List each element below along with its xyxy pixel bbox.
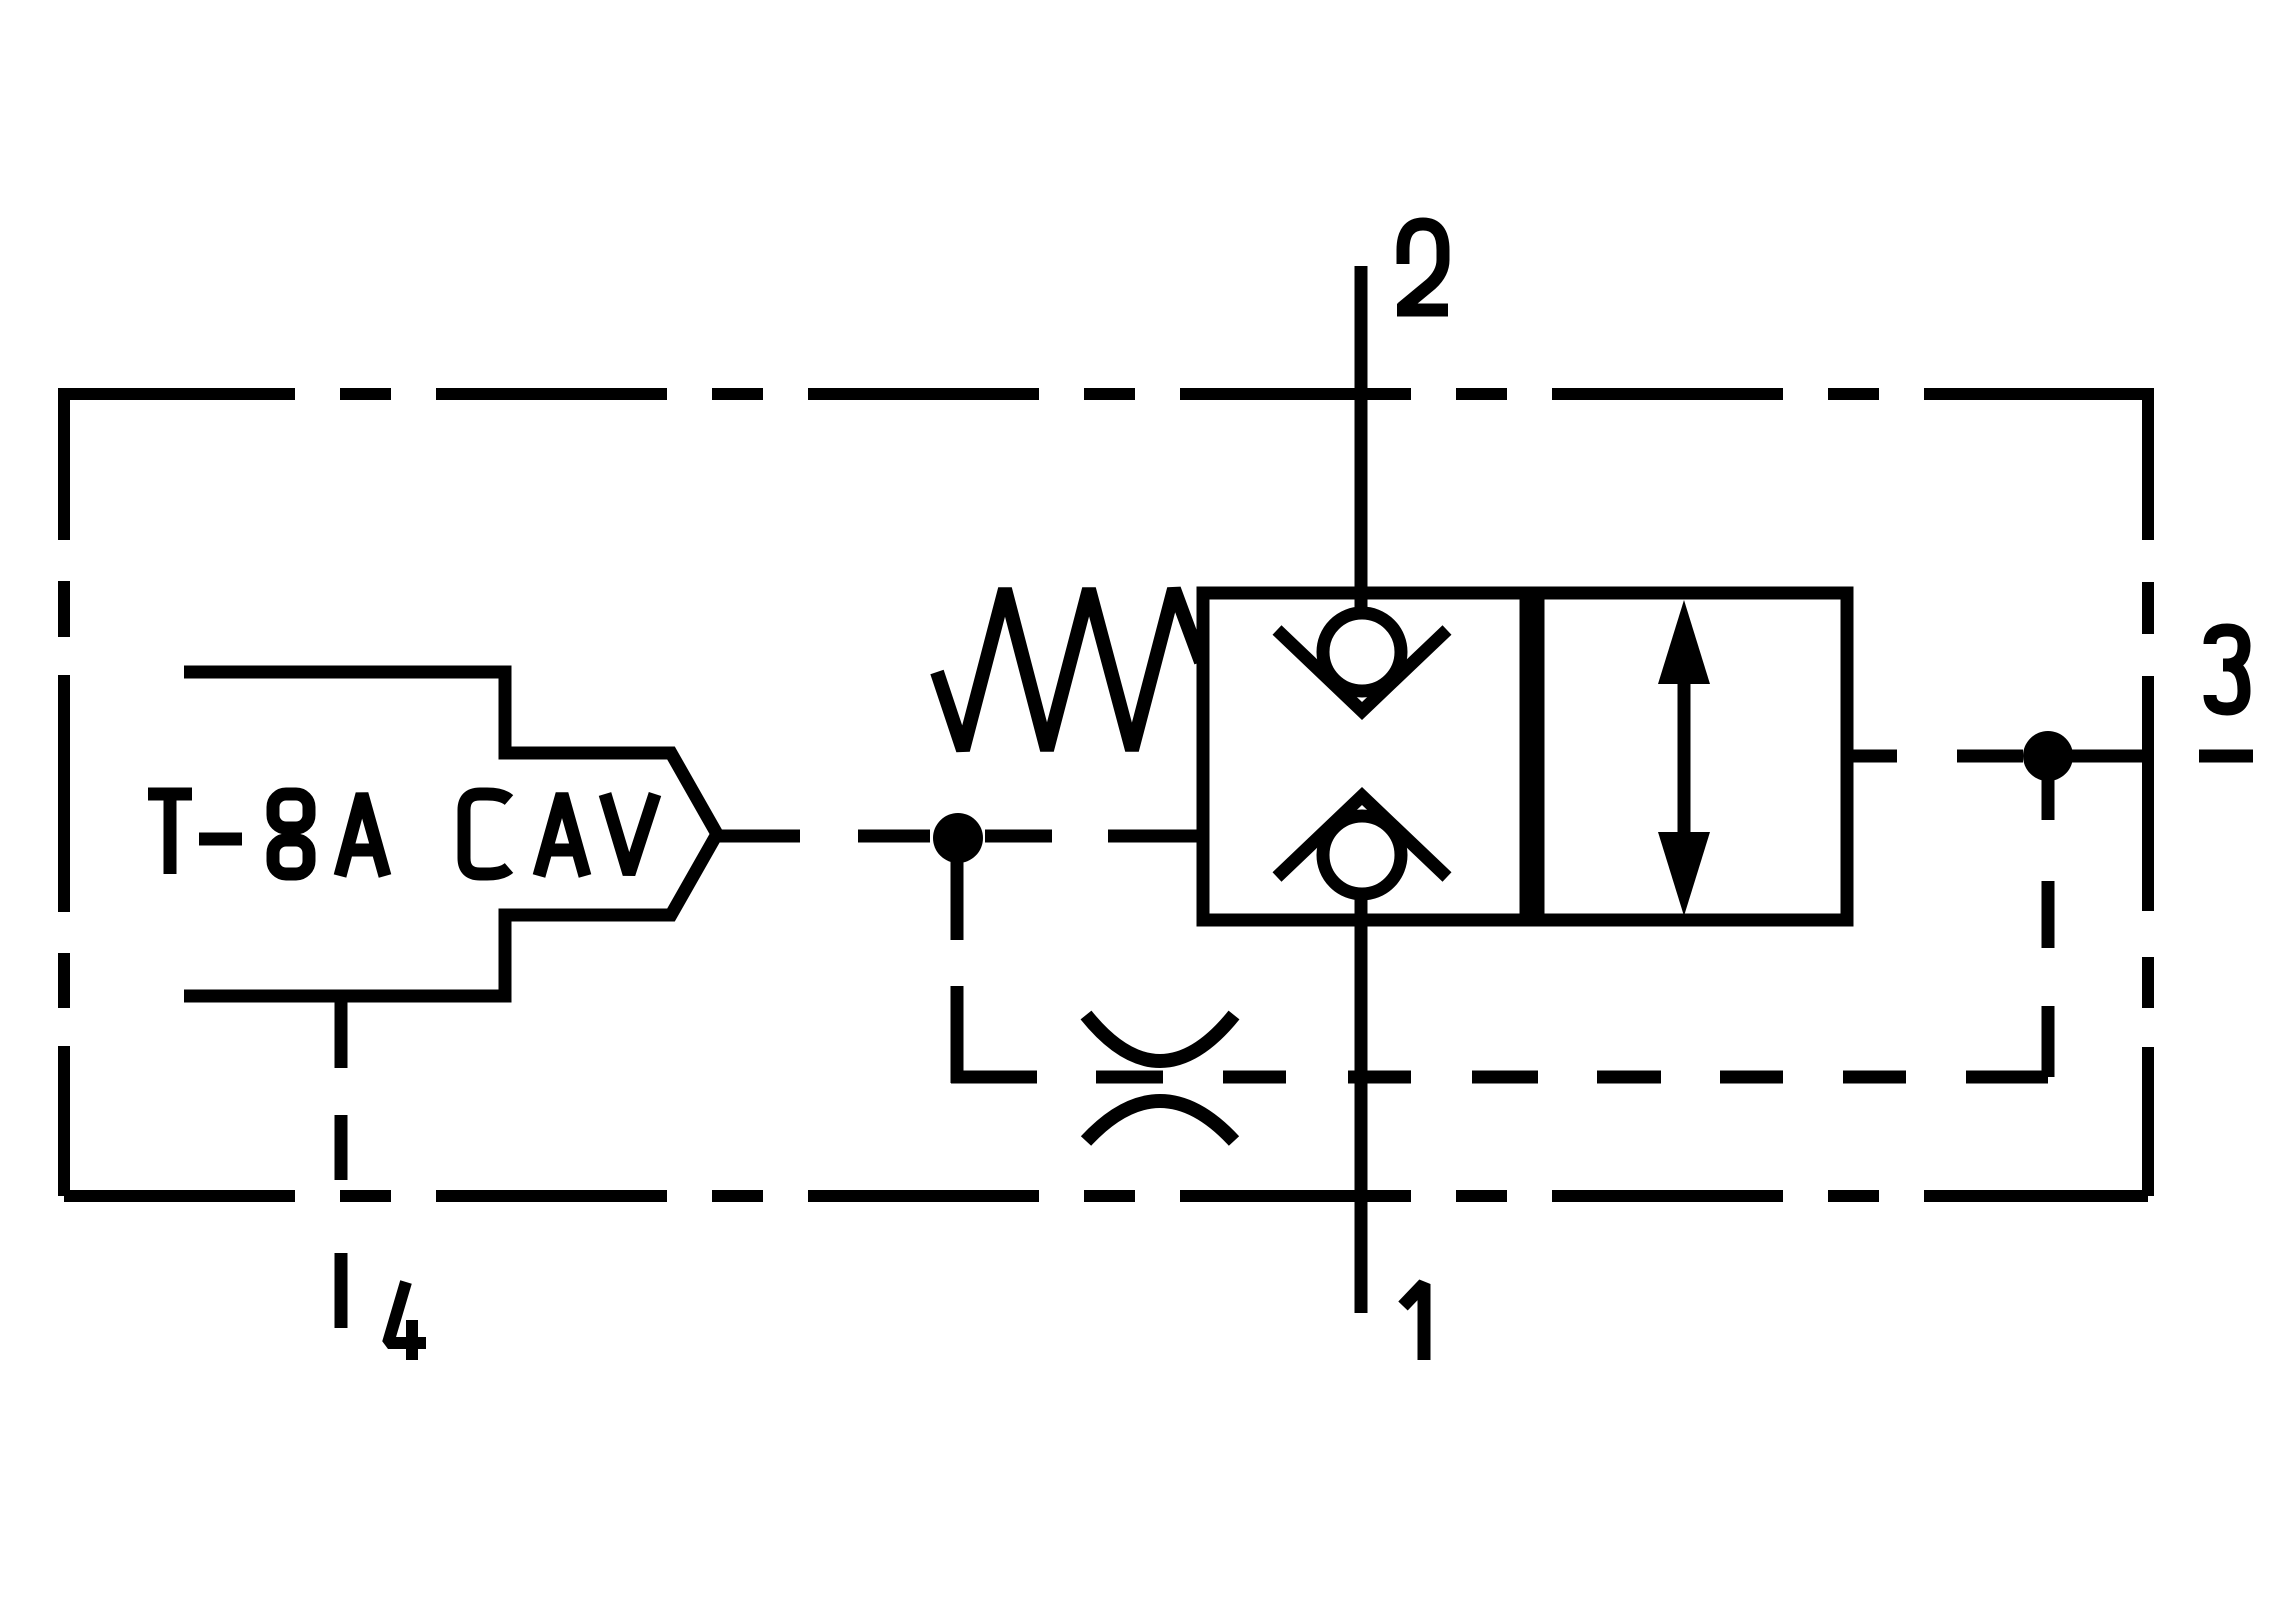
port 3 dashed segment bbox=[1957, 750, 2023, 763]
enclosure boundary bottom (dash-dot) bbox=[64, 1190, 2148, 1202]
spring bbox=[937, 589, 1201, 750]
cavity label text T-8A CAV (stroke glyphs) bbox=[148, 794, 655, 876]
pilot branch down from junction (dashed) bbox=[951, 862, 964, 1083]
check valve lower ball bbox=[1323, 816, 1401, 894]
port 3 stub from valve body bbox=[1847, 750, 1897, 763]
enclosure boundary left (dash-dot) bbox=[58, 388, 70, 1196]
flow arrow bottom head bbox=[1658, 832, 1710, 916]
cavity outline T-8A CAV bbox=[184, 672, 717, 996]
pilot orifice line horizontal (dashed) bbox=[951, 1071, 2048, 1084]
orifice restrictor upper arc bbox=[1086, 1015, 1234, 1061]
port 4 line (dashed) bbox=[335, 996, 348, 1328]
port 1 line bbox=[1355, 894, 1368, 1313]
flow direction double arrow shaft bbox=[1678, 660, 1691, 860]
junction node dot on pilot line bbox=[933, 813, 983, 863]
check valve upper ball bbox=[1323, 613, 1401, 691]
pilot line up to port 3 (dashed) bbox=[2042, 769, 2055, 1077]
orifice restrictor lower arc bbox=[1086, 1101, 1234, 1141]
flow arrow top head bbox=[1658, 600, 1710, 684]
port 2 line bbox=[1355, 266, 1368, 610]
enclosure boundary right (dash-dot) bbox=[2142, 388, 2154, 1196]
enclosure boundary top (dash-dot) bbox=[64, 388, 2148, 400]
port 3 label bbox=[2210, 630, 2244, 709]
check valve upper seat bbox=[1277, 630, 1447, 711]
port 3 external stub bbox=[2199, 750, 2253, 763]
port 4 label bbox=[388, 1282, 426, 1360]
port 2 label bbox=[1397, 224, 1448, 310]
valve body right box (flow arrow section) bbox=[1538, 593, 1847, 920]
pilot line cavity to valve (dashed) bbox=[719, 830, 1203, 843]
port 3 line to boundary bbox=[2072, 750, 2142, 763]
port 1 label bbox=[1403, 1284, 1424, 1360]
check valve lower seat bbox=[1277, 796, 1447, 877]
valve body left box (check valve section) bbox=[1203, 593, 1526, 920]
port 3 junction dot bbox=[2023, 731, 2073, 781]
